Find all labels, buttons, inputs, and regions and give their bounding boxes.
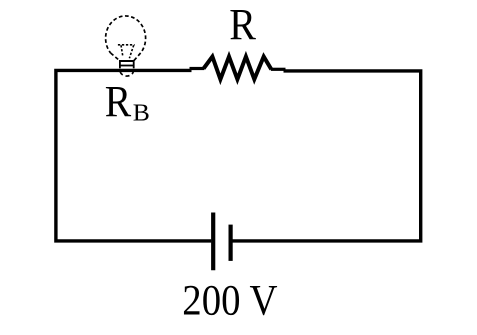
- battery short plate (negative): [229, 225, 233, 261]
- wire top-right + right side + bottom-right (from battery): [233, 71, 421, 241]
- wire resistor left lead: [190, 67, 205, 70]
- svg-text:200 V: 200 V: [182, 276, 278, 324]
- lamp RB glass globe (dashed arc): [106, 16, 146, 53]
- lamp base left edge: [119, 60, 121, 68]
- lamp base middle line: [120, 65, 134, 67]
- svg-text:B: B: [133, 100, 150, 126]
- wire top-left + left side + bottom-left (to battery): [56, 70, 211, 241]
- lamp filament top (dashed): [118, 44, 135, 46]
- lamp filament left support (dashed): [121, 45, 123, 55]
- lamp neck left (dashed): [111, 53, 120, 61]
- resistor R zigzag: [204, 57, 272, 80]
- lamp neck right (dashed): [134, 53, 141, 61]
- lamp bottom cap (dashed arc): [120, 72, 133, 76]
- wire resistor right lead: [271, 68, 286, 71]
- lamp filament right support (dashed): [129, 45, 133, 58]
- svg-text:R: R: [105, 78, 131, 126]
- lamp base right edge: [133, 60, 135, 68]
- lamp base top line: [119, 60, 135, 62]
- battery long plate (positive): [211, 213, 215, 271]
- svg-text:R: R: [229, 1, 256, 49]
